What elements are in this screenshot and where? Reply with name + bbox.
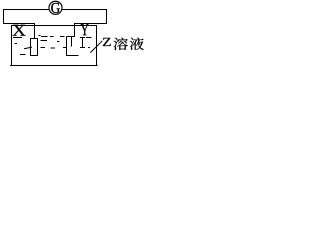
solution mid dash B5 xyxy=(88,47,90,49)
wire top right segment xyxy=(62,9,107,11)
solution surface dash 5 xyxy=(60,36,65,38)
electrode Y plate right edge xyxy=(71,37,73,47)
hanzi ye (liquid) xyxy=(130,38,144,50)
solution surface dash 6 xyxy=(80,37,85,39)
solution surface dash right of X stem xyxy=(39,35,41,37)
galvanometer circle xyxy=(49,1,62,14)
solution surface dash 7 xyxy=(86,37,92,39)
solution mid dash B2b xyxy=(51,47,56,49)
beaker rim xyxy=(11,25,97,27)
solution surface dash under X xyxy=(13,37,22,39)
beaker bottom xyxy=(10,65,98,67)
solution mid dash B3 over Y plate edge xyxy=(63,47,67,49)
leader line to Z solution label xyxy=(90,41,102,53)
wire right drop xyxy=(106,9,108,24)
electrode Y plate top edge xyxy=(67,36,76,38)
galvanometer G label xyxy=(51,3,60,13)
label Z xyxy=(103,38,111,46)
electrode X plate xyxy=(31,39,38,56)
wire top left segment xyxy=(3,9,49,11)
solution surface dash 3 xyxy=(41,36,48,38)
wire left drop xyxy=(3,9,5,24)
solution surface dash 4 xyxy=(50,36,54,38)
label X xyxy=(12,25,25,36)
hanzi rong (solution) xyxy=(114,38,128,50)
electrode X stem xyxy=(34,23,36,39)
beaker left wall xyxy=(11,25,13,66)
solution lower dash under X area xyxy=(20,54,26,56)
electrode Y plate bottom edge xyxy=(66,55,79,57)
electrode Y stem xyxy=(74,23,76,37)
wire to electrode Y xyxy=(74,23,107,25)
beaker right wall xyxy=(96,25,98,66)
solution mid dash B2a xyxy=(41,47,46,49)
wire to electrode X xyxy=(3,23,35,25)
solution mid dash A0 xyxy=(15,43,18,45)
solution mid dash B4 xyxy=(80,47,85,49)
solution mid dash A1 xyxy=(41,40,48,42)
solution mid dash B1 over X plate edge xyxy=(24,47,32,49)
label Y xyxy=(81,24,89,35)
mark below Y vertical xyxy=(82,37,84,47)
solution mid dash A2 xyxy=(57,41,60,43)
electrode Y plate left edge xyxy=(66,37,68,57)
